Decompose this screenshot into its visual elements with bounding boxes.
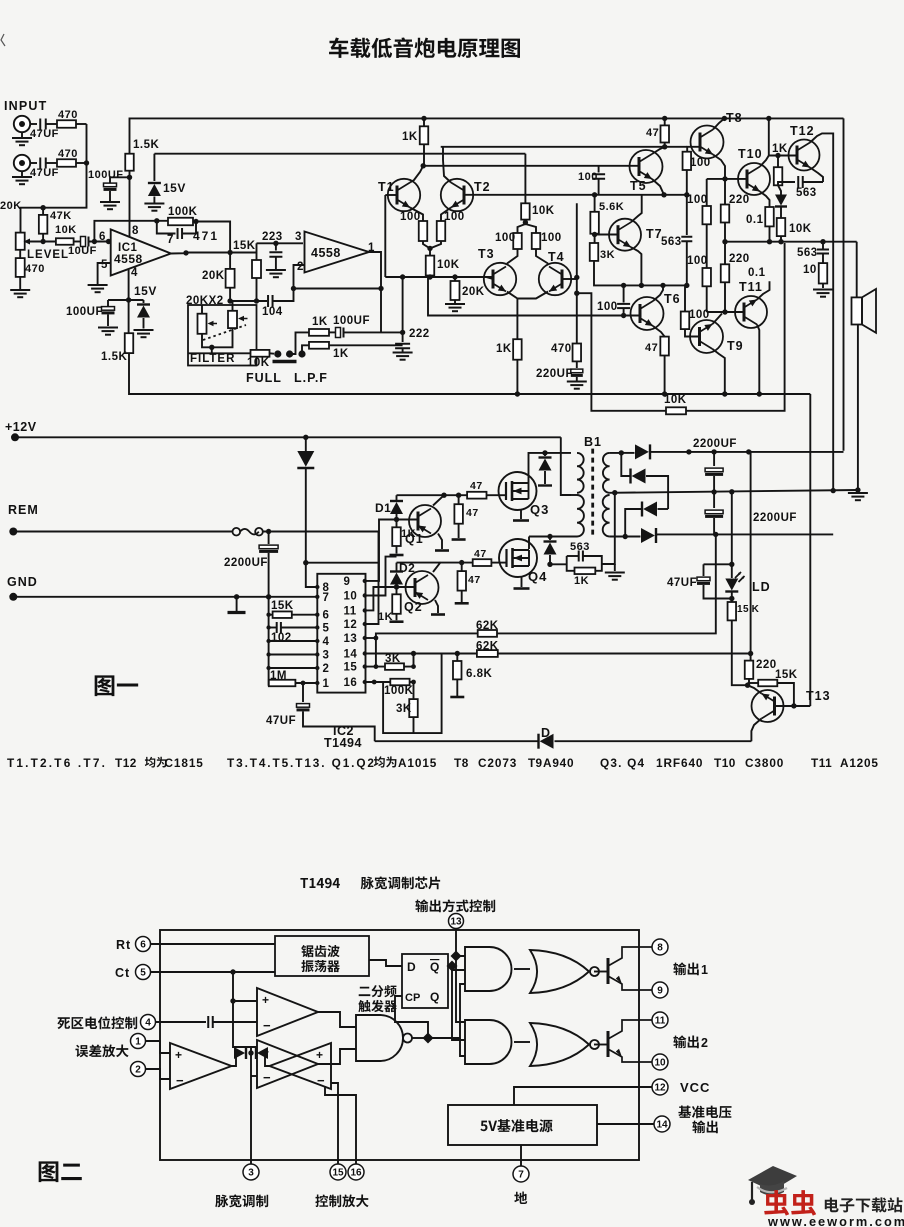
label VCC bbox=[680, 1080, 710, 1095]
wire 10K drive split bbox=[518, 220, 537, 233]
svg-text:T9: T9 bbox=[528, 756, 543, 770]
label 20K bbox=[0, 200, 22, 212]
wire 14 to box bbox=[597, 1123, 654, 1125]
ground snubber bbox=[605, 573, 625, 580]
resistor 15K t13 bbox=[758, 680, 777, 687]
svg-text:6.8K: 6.8K bbox=[466, 668, 492, 680]
label 8 bbox=[132, 225, 139, 237]
transistor T9 bbox=[690, 320, 723, 353]
switch wiper bar bbox=[273, 360, 297, 363]
wire cap to emitter line bbox=[598, 179, 600, 195]
label 470 bbox=[25, 263, 45, 275]
svg-text:12: 12 bbox=[344, 619, 358, 631]
junction 1.5K bottom bbox=[127, 175, 132, 180]
junction diamond pin13 bbox=[451, 951, 462, 962]
svg-text:47: 47 bbox=[470, 480, 483, 492]
label Q4 bbox=[528, 569, 547, 584]
svg-text:T8: T8 bbox=[454, 756, 469, 770]
wire diode to vcc node bbox=[306, 469, 318, 588]
wire cap to resistor bbox=[46, 123, 57, 125]
label 1K b bbox=[333, 348, 349, 360]
resistor 1.5K bbox=[125, 154, 134, 171]
wire GND rail bbox=[13, 596, 317, 598]
terminal Q1 e bbox=[435, 549, 449, 552]
label 47 T6 bbox=[645, 342, 658, 354]
label 100 drv1 bbox=[687, 194, 708, 206]
resistor 15K ic bbox=[273, 611, 292, 618]
resistor 20K bbox=[226, 253, 235, 302]
wire 47UF bottom loop bbox=[704, 585, 734, 599]
junction output rail bbox=[722, 239, 825, 244]
junction output node bbox=[183, 250, 233, 256]
wire center tap rail bbox=[610, 490, 858, 493]
wire 1K q1 bottom bbox=[396, 546, 398, 554]
label T13 bbox=[806, 689, 831, 703]
junction filter node bbox=[227, 298, 259, 303]
label 3 bbox=[295, 231, 302, 243]
svg-text:7: 7 bbox=[323, 592, 330, 604]
transformer B1 secondary 2 bbox=[603, 495, 610, 537]
wire 3Kb bottom net bbox=[383, 654, 442, 734]
wire 100 to T9 base bbox=[685, 329, 699, 336]
resistor 1K lpf b bbox=[309, 342, 329, 349]
label 220 b bbox=[729, 253, 750, 265]
svg-text:www.eeworm.com: www.eeworm.com bbox=[767, 1214, 904, 1227]
wire 1K to sense rail bbox=[516, 360, 518, 394]
terminal 1K q1 bbox=[390, 554, 404, 557]
label 误差放大 bbox=[75, 1044, 128, 1057]
wire 3K col net bbox=[404, 654, 414, 700]
svg-text:INPUT: INPUT bbox=[4, 99, 48, 113]
resistor 1K sn bbox=[575, 568, 596, 575]
wire sense to T13 base bbox=[809, 394, 811, 706]
wire T9 emitter bbox=[713, 349, 725, 394]
label 223 bbox=[262, 231, 283, 243]
svg-text:FULL: FULL bbox=[246, 371, 282, 385]
transistor T3 bbox=[484, 263, 516, 295]
pin 9 circle bbox=[652, 982, 668, 998]
resistor 10K level bbox=[56, 238, 74, 245]
wire bottom rail bbox=[375, 740, 538, 742]
junction left col bbox=[266, 613, 270, 671]
capacitor 100 T5 bbox=[598, 167, 600, 173]
label 100K ic bbox=[384, 685, 414, 697]
pin 1 circle bbox=[131, 1034, 146, 1049]
diode D2 bbox=[390, 572, 403, 585]
label 图一 bbox=[95, 675, 139, 696]
diode snubber Q3 bbox=[544, 453, 546, 456]
diode D3 supply bbox=[305, 437, 307, 451]
svg-text:2: 2 bbox=[135, 1065, 141, 1076]
IC U2 TL494 box bbox=[317, 574, 365, 693]
wire T7 collector bbox=[631, 195, 642, 222]
wire 47UF link bbox=[704, 563, 732, 565]
label 470 bbox=[58, 109, 78, 121]
wire 100 to T3 collector bbox=[507, 249, 518, 264]
resistor 47 pd1 bbox=[454, 495, 463, 538]
wire NOR2 to Tr2 bbox=[594, 1044, 608, 1046]
svg-text:222: 222 bbox=[409, 328, 430, 340]
terminal Q4 s bbox=[514, 587, 530, 590]
capacitor 471 bbox=[178, 228, 183, 239]
wire 15K led down bbox=[732, 620, 748, 685]
svg-text:C2073: C2073 bbox=[478, 756, 517, 770]
capacitor 2200UF pos bbox=[713, 452, 715, 466]
zener diode 15V 2 bbox=[137, 305, 150, 318]
fig2 outer box bbox=[160, 930, 639, 1160]
fig2 title bbox=[300, 876, 440, 889]
label 1M bbox=[270, 670, 287, 682]
label 输出1 bbox=[673, 962, 698, 975]
label 10K T13s bbox=[789, 223, 812, 235]
wire 100UF2 gnd bbox=[107, 315, 109, 327]
label 47 g3 bbox=[470, 480, 483, 492]
diode D2 bbox=[396, 563, 398, 571]
wire 1K b right bbox=[329, 344, 403, 346]
label 5.6K bbox=[599, 201, 624, 213]
label 20KX2 bbox=[186, 295, 224, 307]
ground level bbox=[10, 290, 30, 297]
MOSFET Q3 bbox=[499, 472, 537, 510]
label 二分频 bbox=[359, 985, 397, 997]
wire 104 to pin2 node bbox=[273, 289, 294, 302]
wire pin10 drive bbox=[365, 557, 397, 596]
transistor T6 bbox=[631, 297, 664, 330]
diode snubber Q4 bbox=[549, 537, 551, 541]
transformer B1 primary 1 bbox=[577, 453, 584, 493]
svg-text:47UF: 47UF bbox=[667, 577, 697, 589]
resistor 1.5K 2 bbox=[125, 333, 134, 353]
wire 100UF to ground bbox=[109, 191, 111, 201]
diode err bbox=[234, 1047, 246, 1059]
junction 2200UF rem bbox=[266, 529, 271, 534]
svg-text:1.5K: 1.5K bbox=[101, 351, 127, 363]
svg-text:1K: 1K bbox=[574, 575, 589, 587]
svg-text:T5: T5 bbox=[630, 179, 647, 193]
label 47 T5 bbox=[646, 127, 659, 139]
svg-text:T12: T12 bbox=[115, 756, 137, 770]
junction U2 feedback bbox=[378, 286, 383, 291]
wire 1M to pin1 bbox=[295, 682, 317, 684]
junction sense 1K bbox=[515, 391, 520, 396]
wire T12 emitter bbox=[810, 168, 823, 183]
svg-text:471: 471 bbox=[193, 229, 219, 243]
junction pin6 node bbox=[92, 239, 112, 244]
wire jack1 to cap bbox=[30, 123, 37, 125]
terminal 1K q2 bbox=[390, 620, 404, 623]
wire diamond to gates bbox=[428, 984, 465, 1056]
label 220 t13 bbox=[756, 659, 777, 671]
label 100 T5 bbox=[578, 171, 598, 183]
junction Q2 base node bbox=[394, 584, 399, 589]
svg-text:13: 13 bbox=[450, 917, 462, 928]
capacitor 2200UF rem bbox=[268, 532, 270, 545]
svg-text:15K: 15K bbox=[271, 600, 294, 612]
terminal 47 pd2 bbox=[455, 602, 469, 605]
label 4558 2 bbox=[311, 246, 341, 260]
svg-text:2200UF: 2200UF bbox=[693, 438, 737, 450]
junction pin16 bbox=[372, 680, 377, 685]
svg-text:7: 7 bbox=[518, 1170, 524, 1181]
label IC2 bbox=[333, 724, 354, 738]
svg-text:4: 4 bbox=[323, 636, 330, 648]
wire 1K q2 bottom bbox=[396, 614, 398, 620]
resistor 1K q2 bbox=[392, 594, 401, 614]
wire secondary bottom bbox=[610, 536, 641, 538]
wire REM vcc column bbox=[365, 532, 379, 625]
resistor 470 input 2 bbox=[57, 159, 76, 167]
wire 47 to Q3 gate bbox=[487, 494, 507, 496]
junction pwm node bbox=[248, 1050, 253, 1055]
svg-text:4: 4 bbox=[145, 1018, 151, 1029]
wire T5 collector to 47 bbox=[652, 147, 665, 154]
svg-text:T1.T2.T6 .T7.: T1.T2.T6 .T7. bbox=[7, 756, 107, 770]
label LD bbox=[752, 580, 771, 594]
pin 16 circle bbox=[348, 1164, 364, 1180]
transistor T8 bbox=[691, 126, 724, 159]
label LEVEL bbox=[27, 249, 69, 261]
wire T12 base bbox=[769, 155, 796, 157]
resistor 220 t13 bbox=[745, 661, 754, 679]
wire 47K top bbox=[42, 208, 44, 215]
ground zener 2 bbox=[134, 330, 154, 337]
output transistor 1 bbox=[608, 947, 652, 990]
wire to comp1 plus bbox=[233, 1000, 257, 1002]
svg-text:10UF: 10UF bbox=[68, 245, 97, 257]
wire gnd col bbox=[268, 597, 270, 686]
svg-text:+: + bbox=[262, 993, 269, 1007]
resistor 47 T6 bbox=[660, 337, 669, 356]
wire Q2 emitter bbox=[435, 600, 438, 613]
svg-text:470: 470 bbox=[25, 263, 45, 275]
resistor 1M bbox=[269, 680, 296, 687]
pin label 12 bbox=[344, 619, 358, 631]
wire 15V rail corner to 10K bbox=[524, 154, 526, 204]
resistor 470 level bottom bbox=[16, 250, 25, 289]
wire contact3 to 1K b bbox=[302, 345, 309, 354]
wire T2 emitter to 100 bbox=[441, 208, 451, 222]
transistor T1 bbox=[388, 179, 420, 211]
svg-text:C1815: C1815 bbox=[165, 756, 204, 770]
svg-text:16: 16 bbox=[350, 1168, 362, 1179]
logo graduation cap bbox=[748, 1166, 797, 1205]
svg-text:15K: 15K bbox=[233, 240, 256, 252]
wire REM rail bbox=[13, 531, 232, 533]
wire T13 collector bbox=[748, 685, 762, 693]
pin 4 circle bbox=[141, 1015, 156, 1030]
wire pot connections bbox=[202, 301, 233, 353]
capacitor 47UF t bbox=[297, 704, 310, 712]
junction rail T8 bbox=[722, 116, 727, 121]
wire B+ right edge bbox=[843, 118, 845, 450]
svg-text:47: 47 bbox=[466, 507, 479, 519]
transistor T12 bbox=[789, 140, 820, 171]
wire pin3 bbox=[269, 654, 318, 656]
label Q2 bbox=[404, 600, 423, 614]
capacitor 222 bbox=[395, 344, 410, 349]
ground 100UF bbox=[100, 202, 120, 209]
svg-text:3K: 3K bbox=[600, 249, 615, 261]
junction 222 bbox=[400, 330, 405, 335]
wire T8 collector to rail bbox=[713, 118, 724, 129]
capacitor 563 zobel bbox=[822, 242, 824, 249]
svg-text:1M: 1M bbox=[270, 670, 287, 682]
transformer B1 primary 2 bbox=[577, 495, 584, 537]
svg-text:+12V: +12V bbox=[5, 420, 37, 434]
wire pin16 100K bbox=[365, 681, 391, 683]
capacitor 100UF lpf bbox=[336, 328, 344, 338]
svg-text:1RF640: 1RF640 bbox=[656, 756, 703, 770]
snubber 563 1K bbox=[567, 556, 602, 571]
svg-text:CP: CP bbox=[405, 992, 420, 1004]
svg-text:4558: 4558 bbox=[114, 252, 143, 266]
svg-text:220: 220 bbox=[729, 194, 750, 206]
resistor 100K feedback bbox=[168, 218, 193, 226]
wire T11 collector bbox=[757, 325, 759, 395]
label 470 vas bbox=[551, 343, 572, 355]
svg-text:+: + bbox=[316, 1048, 323, 1062]
svg-text:100: 100 bbox=[541, 232, 562, 244]
comparator 1 bbox=[257, 988, 318, 1036]
capacitor 100 T6bc bbox=[617, 304, 630, 308]
junction pin2 node bbox=[291, 286, 296, 291]
label D1 bbox=[375, 501, 391, 515]
label 100UF 2 bbox=[66, 306, 103, 318]
resistor 3K a bbox=[385, 663, 404, 670]
svg-text:100UF: 100UF bbox=[66, 306, 103, 318]
wire +12V rail bbox=[15, 436, 561, 438]
label 15K t13 bbox=[775, 669, 798, 681]
label 控制放大 bbox=[315, 1194, 368, 1207]
label 563 bias bbox=[661, 236, 682, 248]
label 0.1 a bbox=[746, 214, 764, 226]
svg-text:15K: 15K bbox=[775, 669, 798, 681]
capacitor 47UF led bbox=[703, 564, 705, 576]
label 4558 bbox=[114, 252, 143, 266]
svg-text:223: 223 bbox=[262, 231, 283, 243]
junction 47K bbox=[40, 205, 45, 244]
label 图二 bbox=[39, 1161, 82, 1182]
wire D1 to 1K bbox=[396, 514, 398, 527]
wire vcc link bbox=[306, 562, 379, 564]
RCA jack J2 bbox=[14, 155, 30, 171]
junction snub2 b bbox=[547, 562, 552, 567]
pin label 4 bbox=[323, 636, 330, 648]
wire diamond to CP bbox=[395, 996, 428, 1038]
label 1K sn bbox=[574, 575, 589, 587]
wire secondary top bbox=[610, 453, 630, 476]
capacitor 2200UF 2 bbox=[705, 510, 723, 518]
diode OR pair bbox=[232, 1053, 237, 1066]
ground 100UF 2 bbox=[98, 328, 118, 335]
junction 1K T12 bbox=[775, 153, 780, 158]
wire T13 base bbox=[775, 705, 811, 707]
wire 62K2 col to 220 bbox=[750, 654, 752, 661]
svg-text:T6: T6 bbox=[664, 292, 681, 306]
svg-text:3: 3 bbox=[248, 1168, 254, 1179]
AND gate 1 bbox=[465, 947, 512, 991]
potentiometer 20KX2 a bbox=[198, 314, 218, 334]
resistor 1K lpf a bbox=[309, 329, 329, 336]
resistor 0.1 a bbox=[765, 207, 774, 226]
junction 3Kb col bbox=[411, 664, 416, 684]
svg-text:10: 10 bbox=[654, 1058, 666, 1069]
svg-text:563: 563 bbox=[570, 541, 590, 553]
wire filter to 10K bbox=[188, 352, 251, 354]
wire 3K bottom line bbox=[594, 261, 687, 286]
svg-text:102: 102 bbox=[271, 632, 292, 644]
wire AND1 to NOR1 bbox=[514, 968, 530, 970]
wire minus rail bbox=[657, 534, 834, 535]
bottom note text bbox=[7, 756, 879, 770]
wire zener2 gnd bbox=[143, 318, 145, 329]
svg-text:2200UF: 2200UF bbox=[224, 557, 268, 569]
label T12 bbox=[790, 124, 815, 138]
label 100 T8 bbox=[690, 157, 711, 169]
label IC1 bbox=[118, 242, 138, 254]
wire pin6 feedback up bbox=[94, 221, 171, 242]
label T2 bbox=[474, 180, 491, 194]
svg-text:3K: 3K bbox=[385, 653, 401, 665]
svg-text:8: 8 bbox=[657, 943, 663, 954]
svg-text:15V: 15V bbox=[163, 181, 186, 195]
wire jack ground stem bbox=[21, 171, 23, 176]
wire Rt to osc bbox=[151, 943, 276, 945]
junction T1 coll bbox=[421, 163, 426, 168]
resistor 10K nfb bbox=[666, 407, 686, 414]
wire Q4 source bbox=[521, 577, 523, 587]
svg-text:4558: 4558 bbox=[311, 246, 341, 260]
svg-text:1K: 1K bbox=[402, 131, 418, 143]
wire bottom rail right bbox=[555, 740, 752, 742]
svg-text:0.1: 0.1 bbox=[748, 267, 766, 279]
svg-text:0.1: 0.1 bbox=[746, 214, 764, 226]
wire Q1 emitter bbox=[438, 534, 442, 550]
svg-text:−: − bbox=[263, 1018, 271, 1033]
resistor 10K drive bbox=[521, 203, 530, 219]
label 1K t1 bbox=[402, 131, 418, 143]
diode D1 bbox=[396, 495, 398, 500]
svg-text:1K: 1K bbox=[401, 528, 416, 540]
svg-text:100: 100 bbox=[444, 211, 465, 223]
label 3K a bbox=[385, 653, 401, 665]
svg-text:10K: 10K bbox=[247, 357, 270, 369]
wire jack ground stem bbox=[21, 132, 23, 137]
pin 14 circle bbox=[654, 1116, 670, 1132]
capacitor 2200UF r bbox=[259, 545, 278, 553]
label 5 bbox=[101, 259, 108, 271]
pin label 2 bbox=[323, 663, 330, 675]
svg-text:11: 11 bbox=[344, 605, 357, 617]
wire 62K1 to minus rail bbox=[497, 534, 716, 633]
wire Q4 drain bbox=[528, 537, 530, 550]
wire pin3 pwm bbox=[250, 1059, 252, 1165]
svg-text:10K: 10K bbox=[437, 259, 460, 271]
svg-text:T10: T10 bbox=[738, 147, 763, 161]
svg-text:Q4: Q4 bbox=[528, 569, 547, 584]
pin label 9 bbox=[344, 576, 351, 588]
wire 471 right bbox=[182, 222, 196, 234]
label 锯齿波 bbox=[301, 945, 339, 957]
wire T12 collector bbox=[810, 133, 833, 490]
svg-text:10K: 10K bbox=[789, 223, 812, 235]
junction pot bottom bbox=[209, 345, 214, 350]
wire 222 feedback up bbox=[402, 277, 404, 332]
wire speaker return bbox=[857, 325, 859, 491]
op-amp IC1 4558 bbox=[111, 229, 171, 275]
label T7 bbox=[646, 227, 663, 241]
svg-text:T4: T4 bbox=[548, 250, 565, 264]
